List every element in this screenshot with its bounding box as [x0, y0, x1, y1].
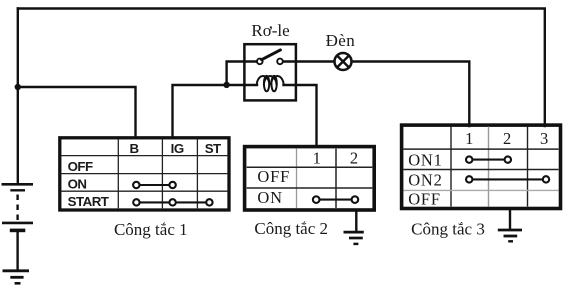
- svg-text:ON1: ON1: [408, 150, 442, 169]
- svg-text:2: 2: [503, 129, 511, 148]
- svg-text:OFF: OFF: [257, 167, 290, 186]
- svg-text:Công tắc 2: Công tắc 2: [254, 219, 328, 238]
- svg-text:1: 1: [313, 149, 321, 168]
- svg-text:ON: ON: [257, 188, 282, 207]
- svg-text:3: 3: [540, 129, 548, 148]
- svg-text:ON: ON: [68, 176, 87, 191]
- svg-text:Đèn: Đèn: [326, 31, 356, 50]
- svg-text:OFF: OFF: [68, 159, 93, 174]
- svg-text:START: START: [68, 194, 109, 209]
- svg-text:IG: IG: [171, 141, 184, 156]
- svg-text:Công tắc 1: Công tắc 1: [114, 220, 188, 239]
- svg-text:ST: ST: [205, 141, 221, 156]
- svg-text:2: 2: [350, 149, 358, 168]
- svg-text:Rơ-le: Rơ-le: [251, 21, 289, 40]
- svg-text:Công tắc 3: Công tắc 3: [411, 220, 485, 239]
- svg-text:OFF: OFF: [408, 189, 441, 208]
- svg-text:1: 1: [465, 129, 473, 148]
- svg-text:ON2: ON2: [408, 171, 442, 190]
- svg-text:B: B: [129, 141, 138, 156]
